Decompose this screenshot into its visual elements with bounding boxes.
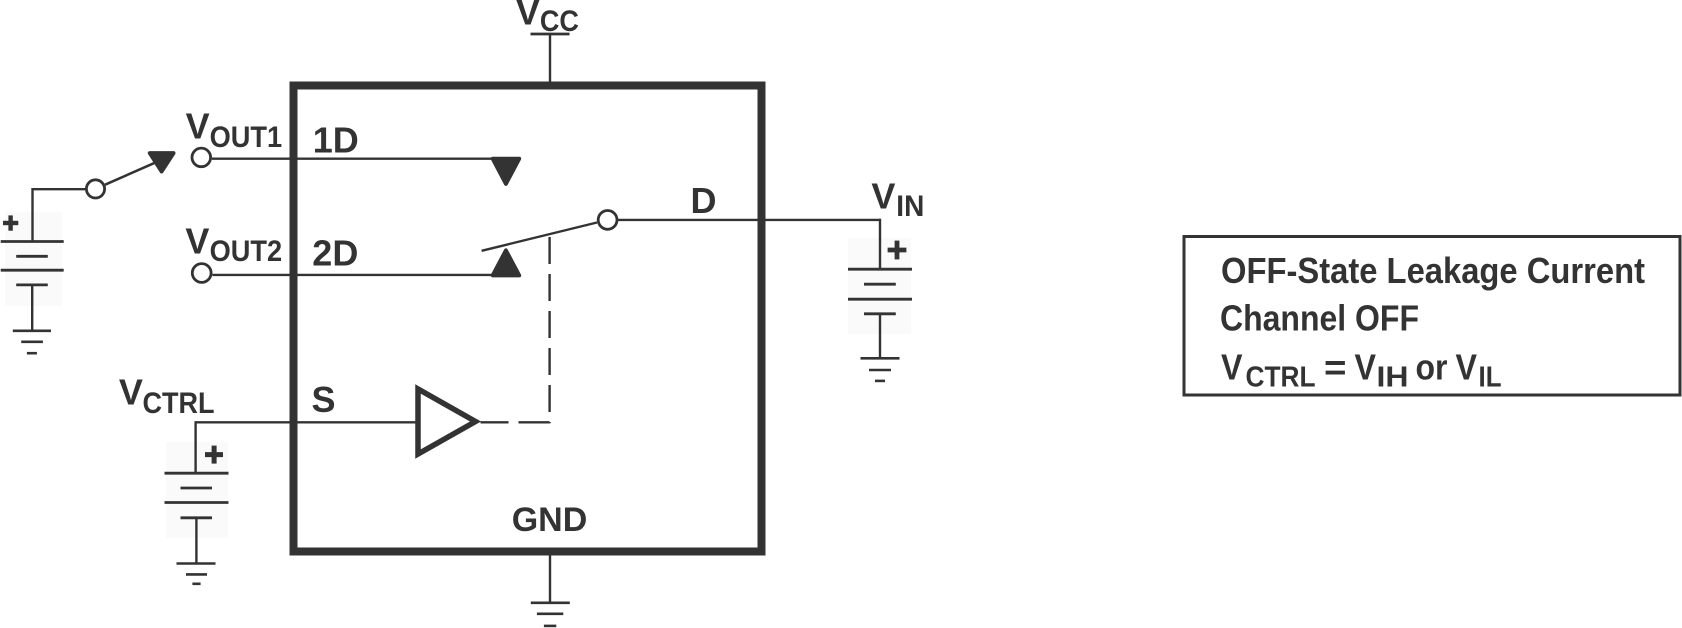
wire VIN down to battery (879, 219, 881, 270)
svg-text:OFF-State Leakage Current: OFF-State Leakage Current (1221, 250, 1645, 291)
wire box to ground (549, 553, 551, 603)
plus sign VIN battery (888, 241, 907, 260)
svg-text:IL: IL (1479, 362, 1502, 394)
note box (1184, 237, 1680, 396)
wire VCTRL battery to ground (195, 518, 197, 564)
faint tint panels behind sources (5, 212, 911, 538)
svg-text:1D: 1D (313, 120, 359, 161)
svg-text:IN: IN (896, 190, 924, 223)
ground (bottom) (531, 603, 570, 626)
wire S input (196, 421, 418, 423)
battery V2 (VIN) (848, 269, 912, 314)
ground (left battery) (13, 331, 51, 353)
svg-text:V: V (1221, 346, 1243, 387)
wire left battery to switch (33, 189, 87, 241)
svg-text:or: or (1416, 346, 1448, 387)
svg-text:V: V (871, 176, 895, 217)
wire VOUT2 to 2D throw (212, 274, 500, 276)
wire VCTRL down to battery (194, 421, 196, 473)
svg-text:S: S (312, 379, 336, 420)
svg-text:V: V (516, 0, 540, 33)
terminal VOUT2 (192, 264, 211, 283)
svg-text:V: V (1456, 346, 1478, 387)
wire left battery to ground (31, 285, 33, 331)
buffer U2 (control driver) (418, 389, 476, 454)
terminal VOUT1 (192, 148, 211, 167)
arrow 2D throw (493, 250, 520, 275)
switch SW1 arrowhead (150, 153, 174, 171)
switch pole circle (D) (598, 211, 617, 230)
wire D to VIN (618, 219, 881, 221)
svg-text:V: V (119, 372, 143, 413)
svg-text:2D: 2D (312, 232, 358, 273)
node VIN label (871, 176, 924, 223)
battery V3 (VCTRL) (165, 473, 229, 518)
svg-text:OUT1: OUT1 (210, 121, 283, 154)
VCC label (516, 0, 579, 38)
note text line 3 (1221, 346, 1502, 393)
svg-text:IH: IH (1377, 362, 1409, 394)
svg-text:V: V (1355, 346, 1377, 387)
switch arm (482, 223, 597, 251)
IC box U1 (294, 86, 762, 552)
svg-text:D: D (691, 180, 717, 221)
switch SW1 pole circle (86, 180, 104, 198)
node VCTRL label (119, 372, 215, 420)
wire VOUT1 to 1D throw (212, 157, 502, 159)
switch SW1 arm (105, 162, 156, 184)
svg-text:Channel OFF: Channel OFF (1220, 297, 1419, 338)
svg-text:=: = (1324, 346, 1347, 387)
svg-text:V: V (185, 220, 209, 261)
dashed control link vertical (548, 237, 550, 423)
svg-text:OUT2: OUT2 (210, 235, 283, 268)
wire VCC to box (549, 34, 551, 83)
arrow 1D throw (493, 159, 520, 184)
battery V1 (left supply) (1, 242, 64, 285)
node VOUT1 label (186, 106, 283, 154)
svg-text:V: V (186, 106, 210, 147)
plus sign VCTRL battery (205, 446, 223, 464)
node VOUT2 label (185, 220, 282, 268)
ground (VCTRL) (177, 564, 216, 584)
VCC rail bar (531, 33, 570, 36)
svg-text:GND: GND (512, 501, 588, 539)
svg-text:CTRL: CTRL (1246, 362, 1316, 394)
plus sign left battery (3, 215, 18, 230)
svg-text:CTRL: CTRL (143, 387, 215, 420)
dashed control link horizontal (481, 421, 550, 423)
ground (VIN) (861, 358, 900, 381)
wire VIN battery to ground (879, 314, 881, 359)
